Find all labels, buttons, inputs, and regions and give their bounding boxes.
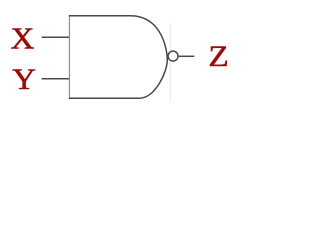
wire Y input <box>42 78 70 80</box>
svg-text:Y: Y <box>12 62 36 95</box>
faint construction guide line <box>169 23 171 101</box>
NAND gate U1 body outline <box>69 16 168 99</box>
NAND gate output inversion bubble <box>168 51 178 61</box>
wire Z output <box>179 55 195 57</box>
NAND gate U1 left edge <box>68 16 70 98</box>
svg-text:X: X <box>10 22 34 56</box>
svg-text:Z: Z <box>208 40 228 73</box>
wire X input <box>42 36 70 38</box>
